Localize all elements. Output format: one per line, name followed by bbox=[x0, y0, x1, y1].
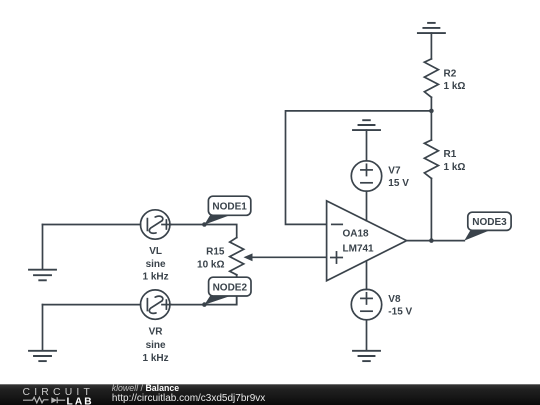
svg-text:1 kHz: 1 kHz bbox=[143, 353, 169, 364]
svg-text:sine: sine bbox=[146, 259, 166, 270]
svg-text:R2: R2 bbox=[444, 68, 457, 79]
svg-text:NODE1: NODE1 bbox=[212, 202, 247, 213]
svg-text:10 kΩ: 10 kΩ bbox=[197, 259, 224, 270]
svg-text:1 kΩ: 1 kΩ bbox=[444, 162, 466, 173]
svg-text:NODE2: NODE2 bbox=[213, 282, 248, 293]
svg-text:http://circuitlab.com/c3xd5dj7: http://circuitlab.com/c3xd5dj7br9vx bbox=[112, 393, 265, 404]
svg-text:sine: sine bbox=[146, 340, 166, 351]
svg-text:R1: R1 bbox=[444, 149, 457, 160]
svg-text:-15 V: -15 V bbox=[388, 307, 412, 318]
svg-text:VR: VR bbox=[149, 327, 164, 338]
svg-text:V8: V8 bbox=[388, 294, 401, 305]
svg-text:1 kΩ: 1 kΩ bbox=[444, 81, 466, 92]
svg-text:1 kHz: 1 kHz bbox=[143, 272, 169, 283]
svg-text:15 V: 15 V bbox=[388, 178, 409, 189]
svg-text:LM741: LM741 bbox=[343, 243, 375, 254]
svg-text:OA18: OA18 bbox=[343, 228, 370, 239]
svg-text:LAB: LAB bbox=[67, 397, 94, 405]
svg-text:klowell / Balance: klowell / Balance bbox=[112, 383, 180, 393]
svg-text:V7: V7 bbox=[388, 166, 401, 177]
svg-text:R15: R15 bbox=[206, 246, 225, 257]
svg-text:VL: VL bbox=[149, 246, 162, 257]
svg-text:NODE3: NODE3 bbox=[472, 217, 507, 228]
